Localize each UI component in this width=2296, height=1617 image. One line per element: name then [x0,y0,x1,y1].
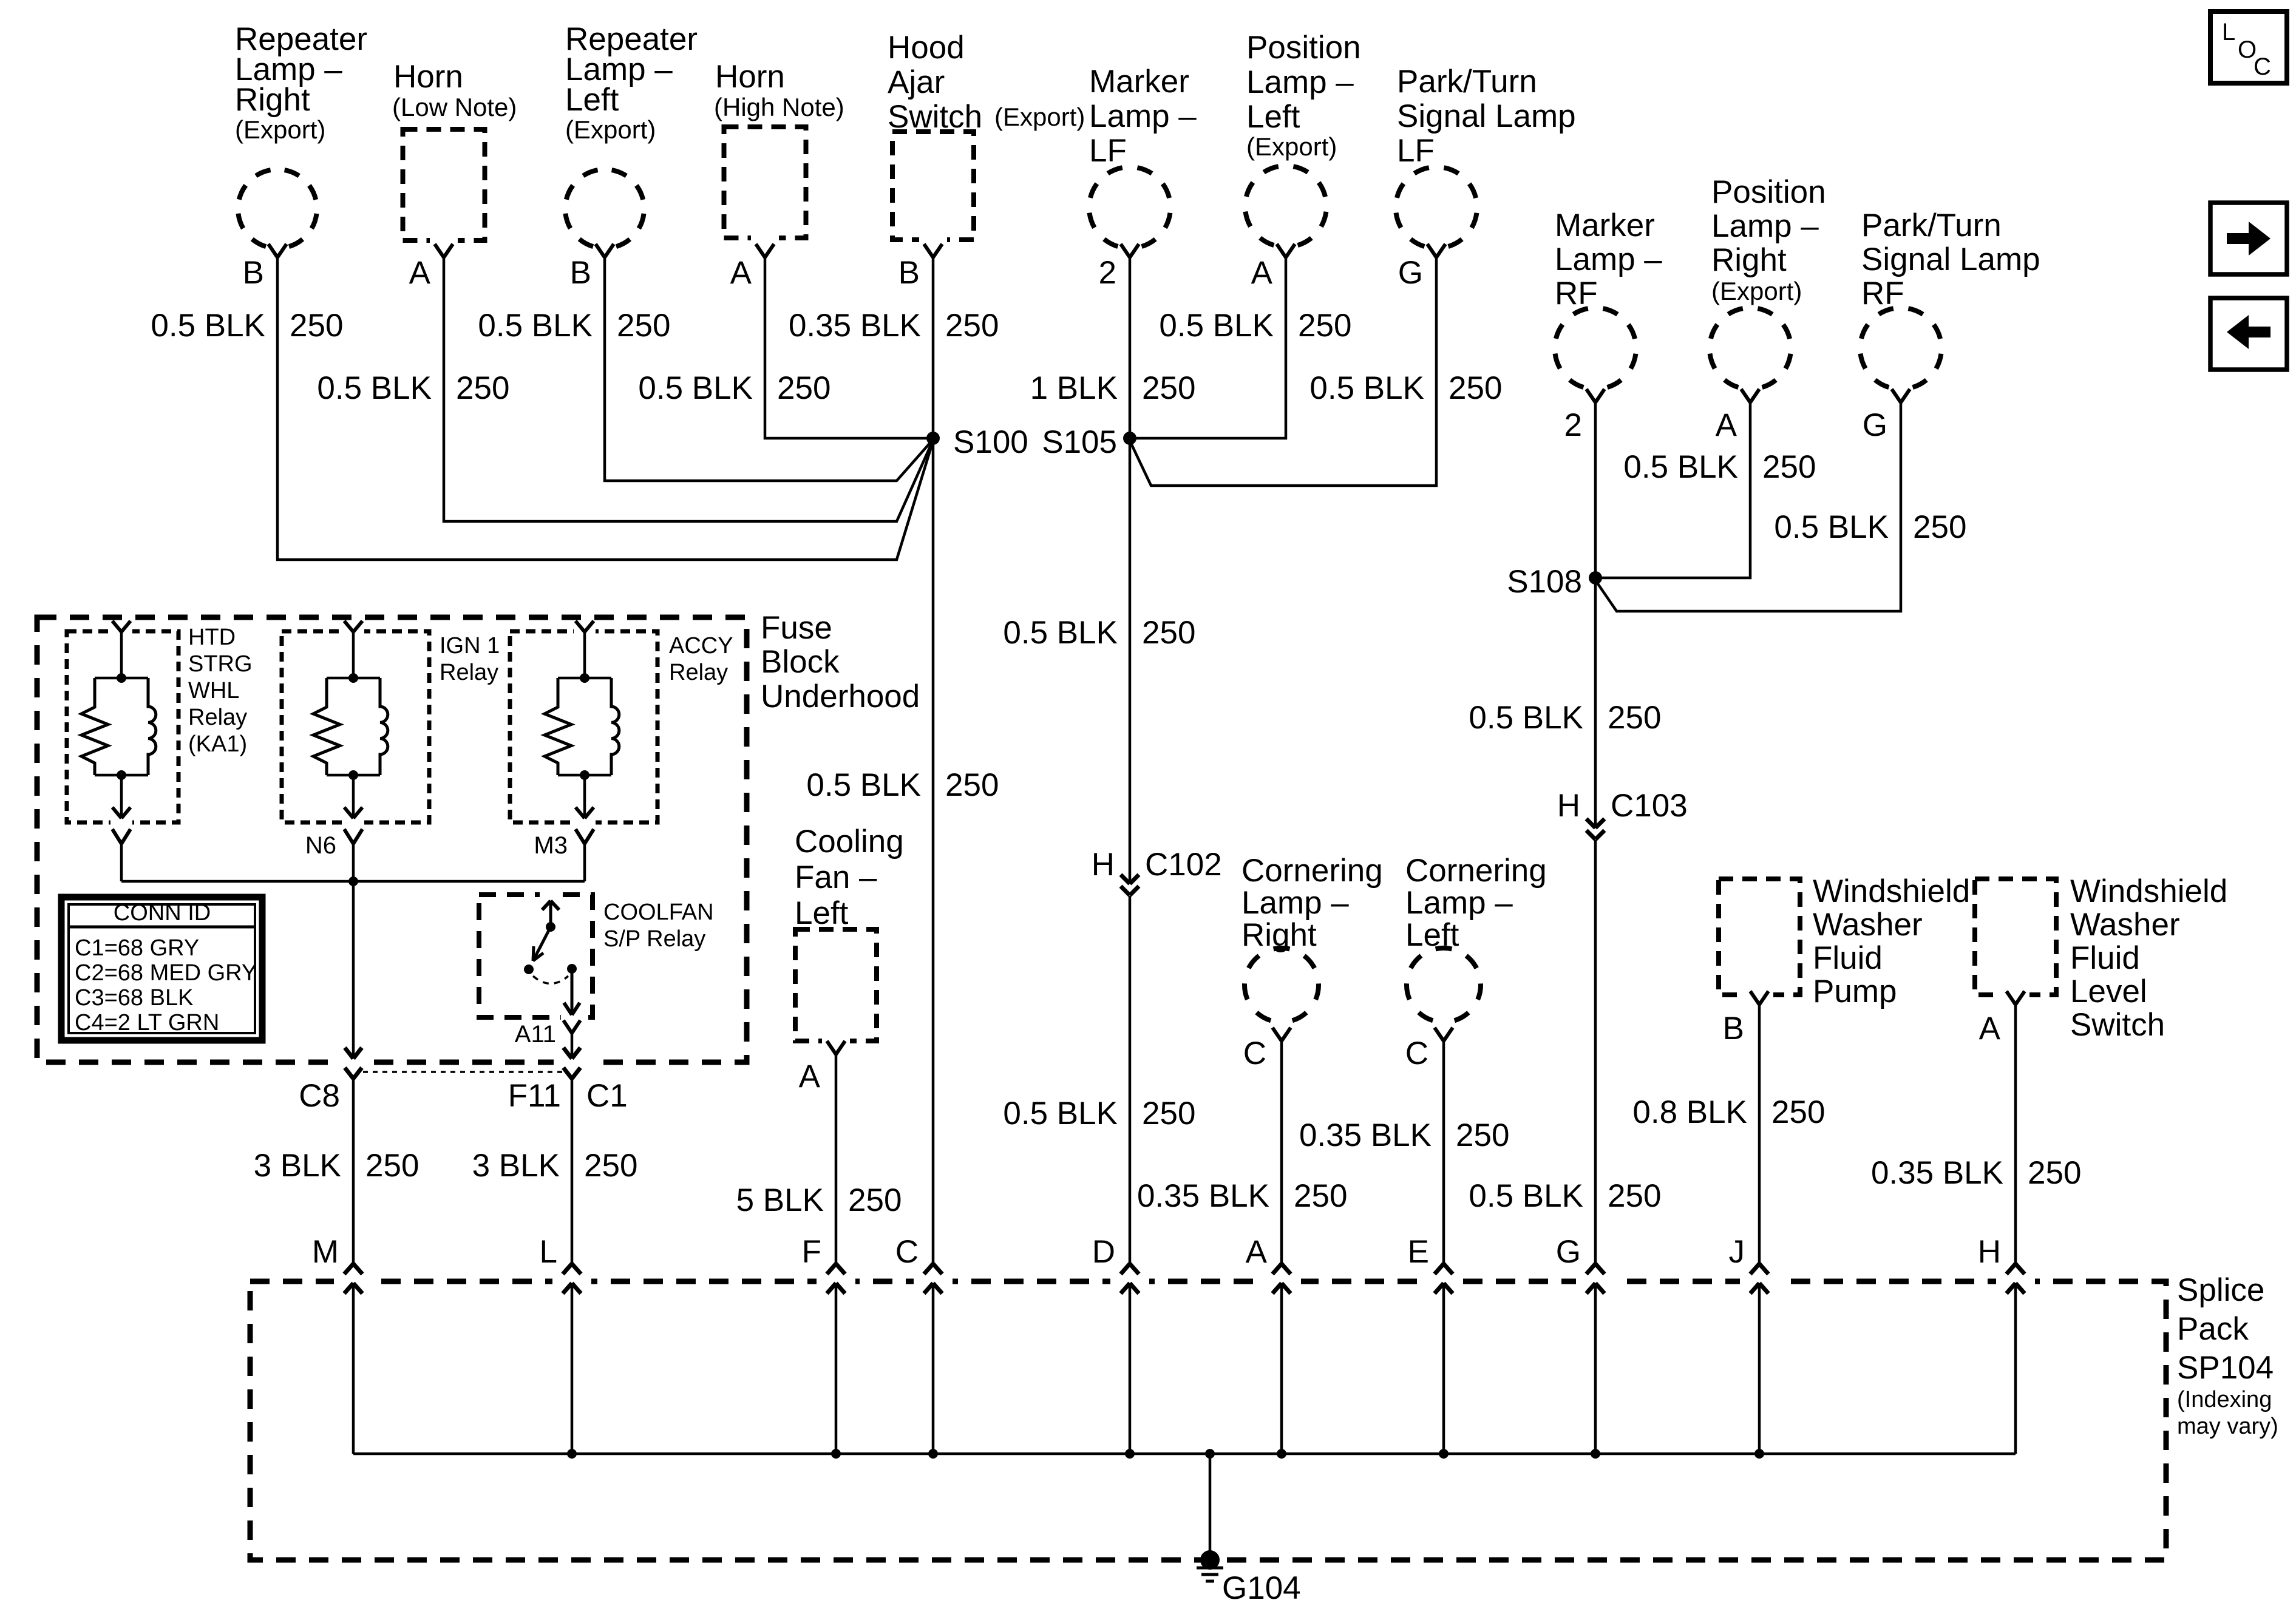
svg-text:(Indexing: (Indexing [2177,1387,2272,1412]
svg-text:(Export): (Export) [565,115,656,144]
svg-text:0.5 BLK: 0.5 BLK [1159,308,1274,344]
pin A of Horn (Low Note) [409,244,453,291]
legend right-arrow navigation box [2210,203,2287,274]
svg-text:(Export): (Export) [1711,277,1802,305]
relay ACCY coil and resistor symbol [545,621,619,818]
svg-text:C1=68 GRY: C1=68 GRY [75,935,199,961]
wire 0.35 BLK 250 from Cornering Lamp Right C to splice pin A [1137,1041,1348,1264]
svg-text:250: 250 [365,1148,419,1184]
svg-text:250: 250 [1142,1096,1195,1131]
legend LOC box icon [2210,12,2287,83]
wire 0.35 BLK 250 from Hood Ajar Switch B through S100 to splice pin C [789,257,999,1264]
wire 0.5 BLK 250 from Park/Turn Signal Lamp LF G to S105 [1130,257,1502,486]
svg-text:M3: M3 [534,832,568,859]
svg-text:2: 2 [1564,407,1582,443]
svg-text:CONN ID: CONN ID [114,900,211,926]
svg-text:Position: Position [1711,174,1826,210]
svg-text:RF: RF [1861,276,1904,311]
svg-text:S108: S108 [1507,564,1582,600]
svg-text:0.5 BLK: 0.5 BLK [1003,615,1118,651]
splice pack pin M [312,1234,362,1454]
svg-text:H: H [1092,847,1115,883]
svg-text:0.5 BLK: 0.5 BLK [478,308,593,344]
node S105 splice [1042,424,1136,460]
svg-text:C4=2 LT GRN: C4=2 LT GRN [75,1010,219,1036]
wire 0.8 BLK 250 from Washer Fluid Pump B to splice pin J [1632,1005,1825,1264]
svg-text:Washer: Washer [1813,907,1923,943]
fuse block underhood dashed enclosure [37,617,747,1062]
svg-text:3 BLK: 3 BLK [254,1148,341,1184]
splice pack pin J [1729,1234,1769,1454]
svg-text:Left: Left [1246,99,1300,135]
svg-text:0.5 BLK: 0.5 BLK [1469,700,1583,736]
svg-text:Signal Lamp: Signal Lamp [1861,242,2040,277]
svg-text:0.8 BLK: 0.8 BLK [1632,1094,1747,1130]
component lamp Position Lamp - Right (Export) [1710,174,1826,387]
svg-text:Horn: Horn [393,59,463,95]
svg-text:Switch: Switch [2070,1007,2165,1043]
svg-text:A: A [799,1059,821,1094]
pin C of Cornering Lamp - Right [1243,1028,1291,1071]
relay COOLFAN S/P dashed box [479,895,593,1017]
svg-text:Cornering: Cornering [1405,853,1547,889]
svg-text:Horn: Horn [715,59,785,95]
svg-text:STRG: STRG [188,651,253,677]
svg-text:C: C [1243,1036,1266,1071]
wire 0.5 BLK 250 from Repeater Lamp - Left B to S100 [478,257,933,481]
pin M3 of ACCY relay [534,829,594,881]
svg-text:250: 250 [456,370,509,406]
svg-text:G: G [1398,255,1423,291]
pin B of Repeater Lamp - Right [243,244,287,291]
svg-text:Hood: Hood [888,30,965,66]
wire 5 BLK 250 from Cooling Fan Left A to splice pin F [736,1054,902,1264]
svg-text:250: 250 [1449,370,1502,406]
wire 0.5 BLK 250 from Position Lamp Left A to S105 [1130,257,1351,438]
svg-text:M: M [312,1234,339,1270]
svg-text:250: 250 [617,308,670,344]
svg-text:may vary): may vary) [2177,1414,2278,1439]
wire internal splice bus [353,1449,2016,1459]
svg-text:L: L [2222,19,2235,46]
svg-text:A: A [730,255,752,291]
splice pack pin A [1246,1234,1291,1454]
pin A of Cooling Fan - Left [799,1041,845,1094]
wire 3 BLK 250 from C8 to splice pin M [254,1079,419,1264]
svg-text:Right: Right [1711,242,1787,278]
label ACCY Relay [669,633,733,685]
wire 0.5 BLK 250 from Horn (Low Note) A to S100 [317,257,933,521]
relay HTD STRG WHL (KA1) dashed box [67,631,178,822]
svg-text:0.5 BLK: 0.5 BLK [806,767,921,803]
svg-text:A: A [409,255,431,291]
svg-text:250: 250 [1142,370,1195,406]
pin A of Horn (High Note) [730,244,774,291]
splice pack pin L [540,1234,581,1454]
svg-text:Lamp –: Lamp – [1405,885,1513,921]
svg-text:0.5 BLK: 0.5 BLK [1003,1096,1118,1131]
svg-text:Lamp –: Lamp – [1241,885,1349,921]
wire from Marker Lamp RF pin 2 through S108 and C103 to splice pin G [1469,402,1661,1264]
pin B of Repeater Lamp - Left [570,244,614,291]
svg-text:0.35 BLK: 0.35 BLK [1299,1117,1432,1153]
svg-text:Windshield: Windshield [2070,873,2227,909]
splice pack pin E [1408,1234,1453,1454]
svg-text:Left: Left [795,895,849,931]
svg-text:(Export): (Export) [235,115,325,144]
label Splice Pack SP104 (Indexing may vary) [2177,1272,2278,1439]
svg-text:A: A [1251,255,1273,291]
svg-text:Fan –: Fan – [795,859,877,895]
pin A11 of COOLFAN S/P relay [515,1020,580,1059]
wire ground drop to G104 [1209,1454,1212,1560]
svg-text:G104: G104 [1222,1570,1301,1606]
component Horn (Low Note) [392,59,517,245]
svg-text:H: H [1978,1234,2001,1270]
svg-text:B: B [1723,1011,1744,1046]
svg-text:B: B [898,255,920,291]
svg-text:D: D [1092,1234,1115,1270]
wire 0.35 BLK 250 from Washer Fluid Level Switch A to splice pin H [1871,1005,2082,1264]
svg-text:Marker: Marker [1089,64,1189,100]
relay IGN 1 dashed box [282,631,429,822]
svg-text:Park/Turn: Park/Turn [1397,64,1537,100]
relay HTD STRG WHL (KA1) coil and resistor symbol [81,621,156,818]
wire from ground bus to fuse block exit C8 [352,881,355,1059]
svg-text:250: 250 [2028,1155,2081,1191]
wire 3 BLK 250 from F11 to splice pin L [472,1079,638,1264]
pin G of Park/Turn Signal Lamp RF [1863,389,1910,443]
splice pack pin F [802,1234,845,1454]
svg-text:0.5 BLK: 0.5 BLK [1469,1178,1583,1214]
svg-text:250: 250 [1142,615,1195,651]
svg-text:250: 250 [1456,1117,1509,1153]
svg-text:C3=68 BLK: C3=68 BLK [75,985,193,1011]
svg-text:S100: S100 [953,424,1028,460]
svg-text:C103: C103 [1611,788,1688,824]
svg-text:LF: LF [1397,133,1435,169]
component lamp Position Lamp - Left (Export) [1245,30,1361,245]
svg-text:A11: A11 [515,1021,556,1048]
svg-text:Position: Position [1246,30,1361,66]
svg-text:RF: RF [1555,276,1598,311]
wire ground bus inside fuse block joining relay pins [121,876,585,886]
svg-text:0.5 BLK: 0.5 BLK [1623,449,1738,485]
svg-text:G: G [1863,407,1887,443]
component lamp Cornering Lamp - Right [1241,853,1383,1020]
svg-text:ACCY: ACCY [669,633,733,659]
svg-text:250: 250 [584,1148,637,1184]
component lamp Cornering Lamp - Left [1405,853,1547,1020]
svg-text:IGN 1: IGN 1 [440,633,500,659]
svg-text:3 BLK: 3 BLK [472,1148,560,1184]
ground G104 [1197,1550,1301,1606]
svg-text:C2=68 MED GRY: C2=68 MED GRY [75,960,257,986]
svg-text:(Export): (Export) [994,103,1085,131]
svg-text:0.5 BLK: 0.5 BLK [1774,509,1889,545]
svg-text:250: 250 [290,308,343,344]
relay IGN 1 coil and resistor symbol [313,621,388,818]
svg-text:C102: C102 [1145,847,1222,883]
component Cooling Fan - Left [795,824,904,1046]
pin 2 of Marker Lamp - RF [1564,389,1605,443]
splice pack pin C [895,1234,942,1454]
svg-text:Relay: Relay [440,660,498,685]
svg-text:Ajar: Ajar [888,64,945,100]
svg-text:C: C [2254,53,2271,80]
connector pin C8 exit from fuse block [299,1048,362,1114]
wire 0.35 BLK 250 from Cornering Lamp Left C to splice pin E [1299,1041,1510,1264]
svg-text:0.5 BLK: 0.5 BLK [638,370,753,406]
dashed connector line between C8 and F11 [363,1071,563,1073]
pin B of Hood Ajar Switch [898,244,942,291]
label HTD STRG WHL Relay (KA1) [188,625,253,757]
wire 0.5 BLK 250 from Park/Turn Signal Lamp RF G to S108 [1595,402,1966,611]
svg-text:(Low Note): (Low Note) [392,93,517,121]
svg-text:Signal Lamp: Signal Lamp [1397,98,1576,134]
svg-text:250: 250 [1608,1178,1661,1214]
svg-text:Windshield: Windshield [1813,873,1970,909]
connector C102 pin H inline on Marker Lamp LF wire [1092,847,1222,895]
svg-text:Splice: Splice [2177,1272,2264,1308]
svg-text:Right: Right [235,82,310,118]
splice pack pin D [1092,1234,1139,1454]
legend left-arrow navigation box [2210,298,2287,370]
svg-text:0.5 BLK: 0.5 BLK [1309,370,1424,406]
svg-text:N6: N6 [305,832,336,859]
connector pins F11 / C1 exit from fuse block [508,1048,628,1114]
pin A of Position Lamp - Right [1716,389,1759,443]
svg-text:Pack: Pack [2177,1311,2249,1347]
svg-text:HTD: HTD [188,625,236,650]
svg-text:250: 250 [1294,1178,1347,1214]
pin 2 of Marker Lamp - LF [1099,244,1139,291]
svg-text:F11: F11 [508,1078,561,1114]
svg-text:Pump: Pump [1813,974,1897,1009]
pin N6 of IGN 1 relay [305,829,362,881]
component lamp Marker Lamp - RF [1555,208,1662,387]
svg-text:0.5 BLK: 0.5 BLK [317,370,432,406]
svg-text:250: 250 [1608,700,1661,736]
svg-text:A: A [1979,1011,2001,1046]
svg-text:Cornering: Cornering [1241,853,1383,889]
pin B of Windshield Washer Fluid Pump [1723,991,1768,1046]
svg-text:B: B [243,255,264,291]
component Windshield Washer Fluid Level Switch [1975,873,2227,1043]
svg-text:5 BLK: 5 BLK [736,1182,824,1218]
svg-text:Level: Level [2070,974,2147,1009]
svg-text:Fuse: Fuse [761,610,832,646]
pin of HTD STRG WHL relay to ground bus [112,829,131,881]
wire from Marker Lamp LF pin 2 through S105 and C102 to splice pin D [1003,257,1195,1264]
splice pack pin H [1978,1234,2025,1454]
svg-text:G: G [1556,1234,1581,1270]
component lamp Park/Turn Signal Lamp LF [1396,64,1576,246]
table CONN ID [61,897,262,1040]
svg-text:F: F [802,1234,821,1270]
svg-text:Lamp –: Lamp – [1089,98,1197,134]
svg-text:Lamp –: Lamp – [1246,64,1354,100]
component lamp Marker Lamp - LF [1089,64,1197,246]
svg-text:LF: LF [1089,133,1127,169]
svg-text:S/P Relay: S/P Relay [603,926,705,952]
label IGN 1 Relay [440,633,500,685]
component Horn (High Note) [714,59,844,243]
svg-text:C8: C8 [299,1078,340,1114]
svg-text:0.35 BLK: 0.35 BLK [1137,1178,1269,1214]
svg-text:Fluid: Fluid [2070,940,2140,976]
wire 0.5 BLK 250 from Position Lamp Right A to S108 [1595,402,1816,578]
label COOLFAN S/P Relay [603,900,714,952]
svg-text:2: 2 [1099,255,1116,291]
svg-text:Left: Left [565,82,619,118]
svg-text:Lamp –: Lamp – [1555,242,1662,277]
svg-text:250: 250 [1762,449,1816,485]
svg-text:Fluid: Fluid [1813,940,1883,976]
svg-text:Relay: Relay [188,705,247,730]
svg-text:(KA1): (KA1) [188,731,247,757]
svg-text:E: E [1408,1234,1429,1270]
svg-text:Lamp –: Lamp – [1711,208,1819,244]
svg-text:Block: Block [761,644,840,680]
svg-text:COOLFAN: COOLFAN [603,900,714,925]
svg-text:Relay: Relay [669,660,728,685]
svg-text:L: L [540,1234,557,1270]
wire 0.5 BLK 250 from Repeater Lamp - Right B to S100 [151,257,933,560]
svg-text:C: C [895,1234,919,1270]
svg-text:A: A [1716,407,1737,443]
svg-text:250: 250 [1298,308,1351,344]
splice pack SP104 dashed enclosure [250,1281,2166,1560]
label Fuse Block Underhood [761,610,920,714]
svg-text:0.5 BLK: 0.5 BLK [151,308,265,344]
svg-text:Marker: Marker [1555,208,1655,243]
svg-text:C1: C1 [586,1078,628,1114]
component Hood Ajar Switch (Export) [888,30,1085,245]
svg-text:250: 250 [848,1182,902,1218]
component Windshield Washer Fluid Pump [1719,873,1970,1009]
node S108 splice [1507,564,1602,600]
pin A of Windshield Washer Fluid Level Switch [1979,991,2025,1046]
svg-text:Park/Turn: Park/Turn [1861,208,2002,243]
svg-text:1 BLK: 1 BLK [1030,370,1118,406]
svg-text:(Export): (Export) [1246,132,1337,161]
component lamp Park/Turn Signal Lamp RF [1860,208,2040,387]
svg-text:250: 250 [945,767,999,803]
svg-text:J: J [1729,1234,1745,1270]
svg-text:H: H [1557,788,1580,824]
node S100 splice [926,424,1028,460]
svg-text:SP104: SP104 [2177,1350,2274,1386]
pin C of Cornering Lamp - Left [1405,1028,1453,1071]
svg-text:A: A [1246,1234,1268,1270]
splice pack pin G [1556,1234,1605,1454]
component lamp Repeater Lamp - Right (Export) [235,21,367,246]
svg-text:250: 250 [777,370,830,406]
component lamp Repeater Lamp - Left (Export) [565,21,698,246]
connector C103 pin H inline on Marker Lamp RF wire [1557,788,1688,839]
svg-text:S105: S105 [1042,424,1117,460]
relay ACCY dashed box [510,631,657,822]
svg-text:Cooling: Cooling [795,824,904,859]
svg-text:0.35 BLK: 0.35 BLK [789,308,921,344]
pin A of Position Lamp - Left [1251,244,1295,291]
svg-text:0.35 BLK: 0.35 BLK [1871,1155,2003,1191]
svg-text:250: 250 [1771,1094,1825,1130]
svg-text:Underhood: Underhood [761,679,920,714]
svg-text:(High Note): (High Note) [714,93,844,121]
svg-text:B: B [570,255,591,291]
svg-text:250: 250 [1913,509,1966,545]
svg-text:250: 250 [945,308,999,344]
wire 0.5 BLK 250 from Horn (High Note) A to S100 [638,257,933,438]
svg-text:WHL: WHL [188,678,239,703]
COOLFAN S/P relay switch contacts [524,901,580,1015]
pin G of Park/Turn Signal Lamp LF [1398,244,1445,291]
svg-text:Washer: Washer [2070,907,2180,943]
svg-text:C: C [1405,1036,1428,1071]
